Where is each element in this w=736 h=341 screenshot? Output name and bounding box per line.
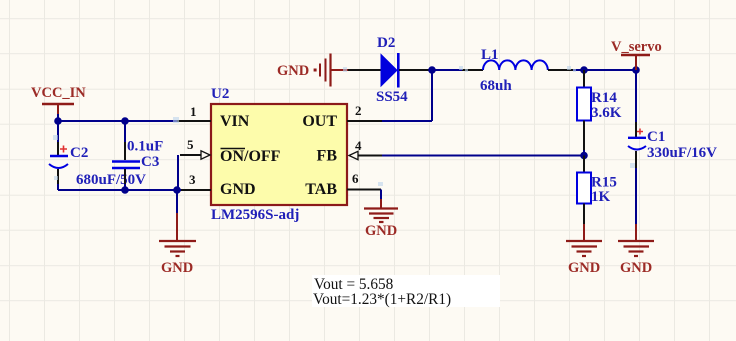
pin 4 stub with input arrow	[349, 138, 382, 160]
wire D2 cathode to junction	[399, 69, 432, 71]
svg-text:6: 6	[352, 171, 359, 186]
svg-text:3.6K: 3.6K	[591, 105, 622, 121]
svg-text:C3: C3	[141, 154, 159, 170]
svg-text:GND: GND	[365, 223, 397, 239]
ground GND (under R15)	[566, 241, 602, 276]
wire bottom-left horizontal (GND net)	[58, 189, 181, 191]
node junction C3 bottom	[121, 186, 129, 194]
node junction at R14 top	[580, 66, 588, 74]
power port V_servo	[611, 39, 662, 70]
svg-text:ON/OFF: ON/OFF	[220, 148, 281, 165]
resistor R14	[577, 88, 622, 122]
ground GND (under pin 6)	[364, 209, 398, 240]
pin 1 stub	[177, 104, 211, 121]
node junction at V_servo/C1	[632, 66, 640, 74]
power ground symbol (top, left of D2)	[277, 54, 348, 87]
svg-text:OUT: OUT	[302, 113, 337, 130]
capacitor C3	[112, 139, 163, 171]
inductor L1	[480, 47, 548, 94]
svg-text:D2: D2	[377, 35, 395, 51]
svg-text:C1: C1	[647, 129, 665, 145]
wire pin6 to ground	[380, 190, 382, 209]
pin 5 stub with input arrow	[180, 137, 210, 159]
svg-text:5: 5	[187, 137, 194, 152]
svg-text:FB: FB	[317, 148, 338, 165]
svg-text:TAB: TAB	[305, 181, 337, 198]
svg-text:3: 3	[189, 172, 196, 187]
svg-text:GND: GND	[620, 260, 652, 276]
svg-text:680uF/50V: 680uF/50V	[76, 172, 146, 188]
svg-text:68uh: 68uh	[480, 78, 512, 94]
power port VCC_IN	[31, 85, 86, 114]
pin 6 stub	[347, 171, 381, 190]
wire R14 top pin	[583, 70, 585, 88]
svg-text:2: 2	[355, 103, 362, 118]
svg-text:330uF/16V: 330uF/16V	[647, 145, 717, 161]
wire top-left horizontal to pin1	[58, 120, 178, 122]
svg-text:SS54: SS54	[376, 89, 408, 105]
node junction at D2 cathode	[428, 66, 436, 74]
wire VCC_IN vertical	[57, 114, 59, 121]
wire C2 branch lower	[57, 169, 59, 190]
svg-text:VIN: VIN	[220, 113, 250, 130]
node junction C3 top	[121, 117, 129, 125]
svg-text:VCC_IN: VCC_IN	[31, 85, 86, 101]
svg-text:4: 4	[355, 138, 362, 153]
svg-text:GND: GND	[161, 260, 193, 276]
svg-text:U2: U2	[211, 86, 229, 102]
resistor R15	[577, 173, 617, 206]
svg-text:0.1uF: 0.1uF	[127, 139, 163, 155]
wire pin5 branch vertical	[177, 155, 179, 190]
wire junction down to OUT pin 2	[382, 70, 432, 121]
wire C2 branch upper	[57, 121, 59, 155]
svg-text:1: 1	[190, 104, 197, 119]
capacitor C2	[49, 145, 146, 188]
svg-text:GND: GND	[220, 181, 256, 198]
pin ON/OFF name	[220, 148, 281, 165]
diode D2	[376, 35, 408, 105]
annotation Vout text block	[312, 275, 500, 308]
pin 3 stub	[181, 172, 211, 190]
node junction FB / R14 / R15	[580, 152, 588, 160]
wire R15 top pin	[583, 156, 585, 174]
wire C3 branch upper	[124, 121, 126, 160]
pin 2 stub	[347, 103, 382, 121]
op-amp U1: regulator body U2	[211, 86, 347, 223]
wire R14 bottom to FB junction	[583, 121, 585, 156]
svg-text:LM2596S-adj: LM2596S-adj	[211, 207, 299, 223]
svg-text:C2: C2	[70, 145, 88, 161]
wire junction to L1	[432, 69, 483, 71]
wire junction to V_servo node	[584, 69, 636, 71]
ground GND (under C1)	[618, 241, 654, 276]
wire GND branch vertical	[176, 190, 178, 240]
node junction GND branch	[173, 186, 181, 194]
wire ground to D2 anode	[348, 69, 381, 71]
ground GND (left, under C2/C3)	[159, 241, 196, 276]
wire C1 bottom to ground	[635, 151, 637, 240]
svg-text:GND: GND	[277, 63, 309, 79]
capacitor C1	[628, 129, 717, 162]
node junction at VCC_IN	[54, 117, 62, 125]
wire FB net horizontal	[382, 155, 584, 157]
wire C3 branch lower	[124, 169, 126, 190]
wire V_servo node down to C1	[635, 70, 637, 137]
svg-text:Vout=1.23*(1+R2/R1): Vout=1.23*(1+R2/R1)	[313, 291, 451, 308]
svg-text:GND: GND	[568, 260, 600, 276]
svg-text:1K: 1K	[591, 189, 611, 205]
svg-text:R14: R14	[591, 90, 617, 106]
svg-text:V_servo: V_servo	[611, 39, 662, 55]
wire R15 bottom to ground	[583, 204, 585, 241]
wire L1 right to junction	[548, 69, 584, 71]
